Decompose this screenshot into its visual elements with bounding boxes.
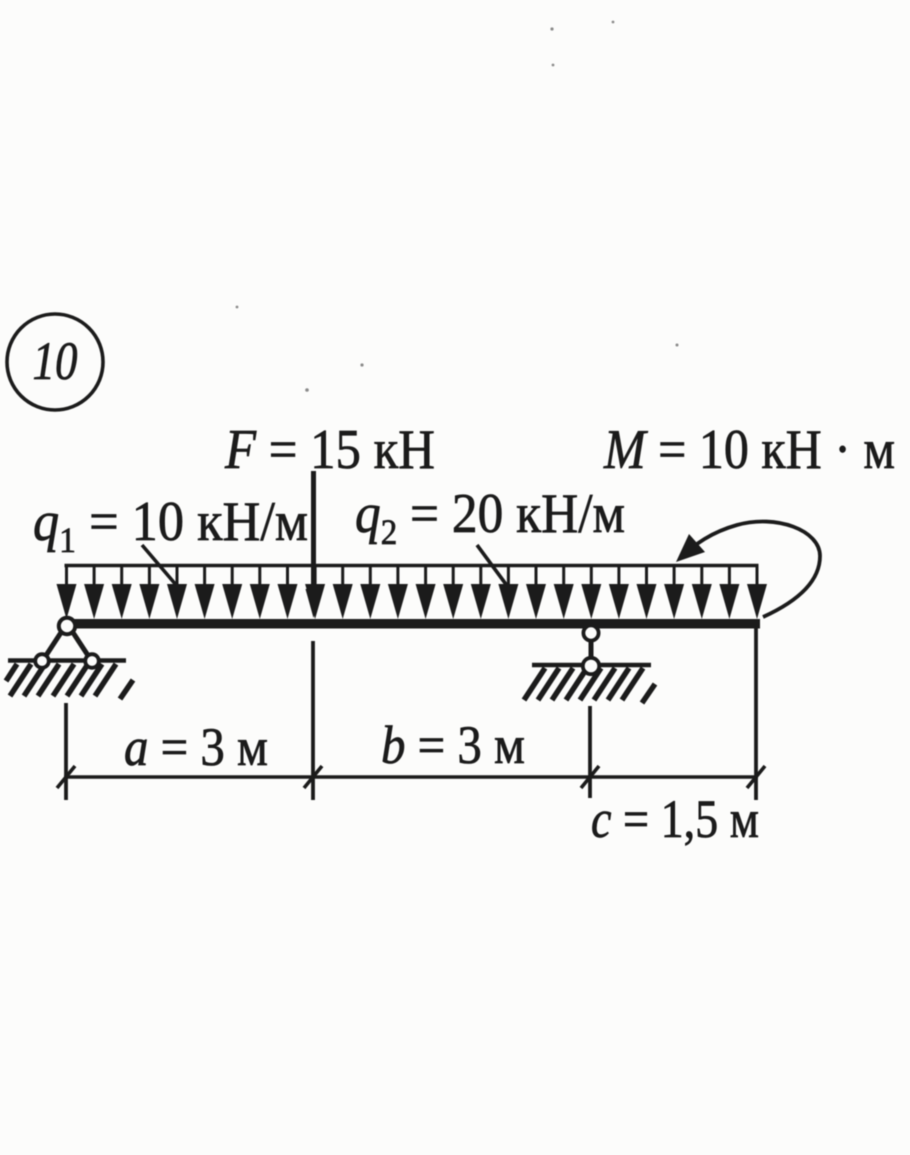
pin support A: pin circle [59,618,75,634]
dimension tick at x=313 [304,766,322,788]
pin support A: right foot roller [85,654,99,668]
pin support A: triangle legs [45,631,89,657]
svg-text:q1 = 10 кН/м: q1 = 10 кН/м [33,491,308,560]
leader line from q2 label to load [477,545,508,587]
svg-text:M = 10 кН · м: M = 10 кН · м [603,419,895,481]
label q2 = 20 kN/m [355,483,625,552]
problem number badge circle 10 [7,314,103,410]
label q1 = 10 kN/m [33,491,308,560]
svg-text:F = 15 кН: F = 15 кН [224,419,435,481]
dimension extension line at beam right end [754,628,758,800]
dimension extension line under roller support [588,706,592,798]
svg-text:a = 3 м: a = 3 м [124,717,268,777]
roller support B: link [589,638,594,660]
svg-text:10: 10 [33,331,78,391]
svg-text:q2 = 20 кН/м: q2 = 20 кН/м [355,483,625,552]
dimension line [64,775,758,778]
svg-text:b = 3 м: b = 3 м [381,715,525,775]
moment M arc arrow [676,521,820,617]
roller support B: upper circle [583,625,598,640]
pin support A: left foot roller [35,654,49,668]
roller support B: ground line [532,663,651,667]
label M = 10 kN*m [603,419,895,481]
svg-text:c = 1,5 м: c = 1,5 м [591,789,759,849]
roller support B: ground hatching [524,668,655,703]
force F arrow [306,471,322,618]
pin support A: ground hatching [6,664,133,699]
dimension extension line at left support [64,703,68,800]
pin support A: ground line [8,658,126,662]
dimension tick at x=590 [581,766,599,788]
beam [64,619,760,629]
scan specks [236,21,679,392]
distributed load arrows [57,565,768,619]
leader line from q1 label to load [142,545,177,586]
roller support B: lower circle [583,658,599,674]
label F = 15 kN [224,419,435,481]
dimension tick at x=756 [747,766,765,788]
dimension tick at x=66 [57,766,75,788]
dimension extension line under force F [311,641,315,800]
distributed load q tail line [65,564,759,567]
